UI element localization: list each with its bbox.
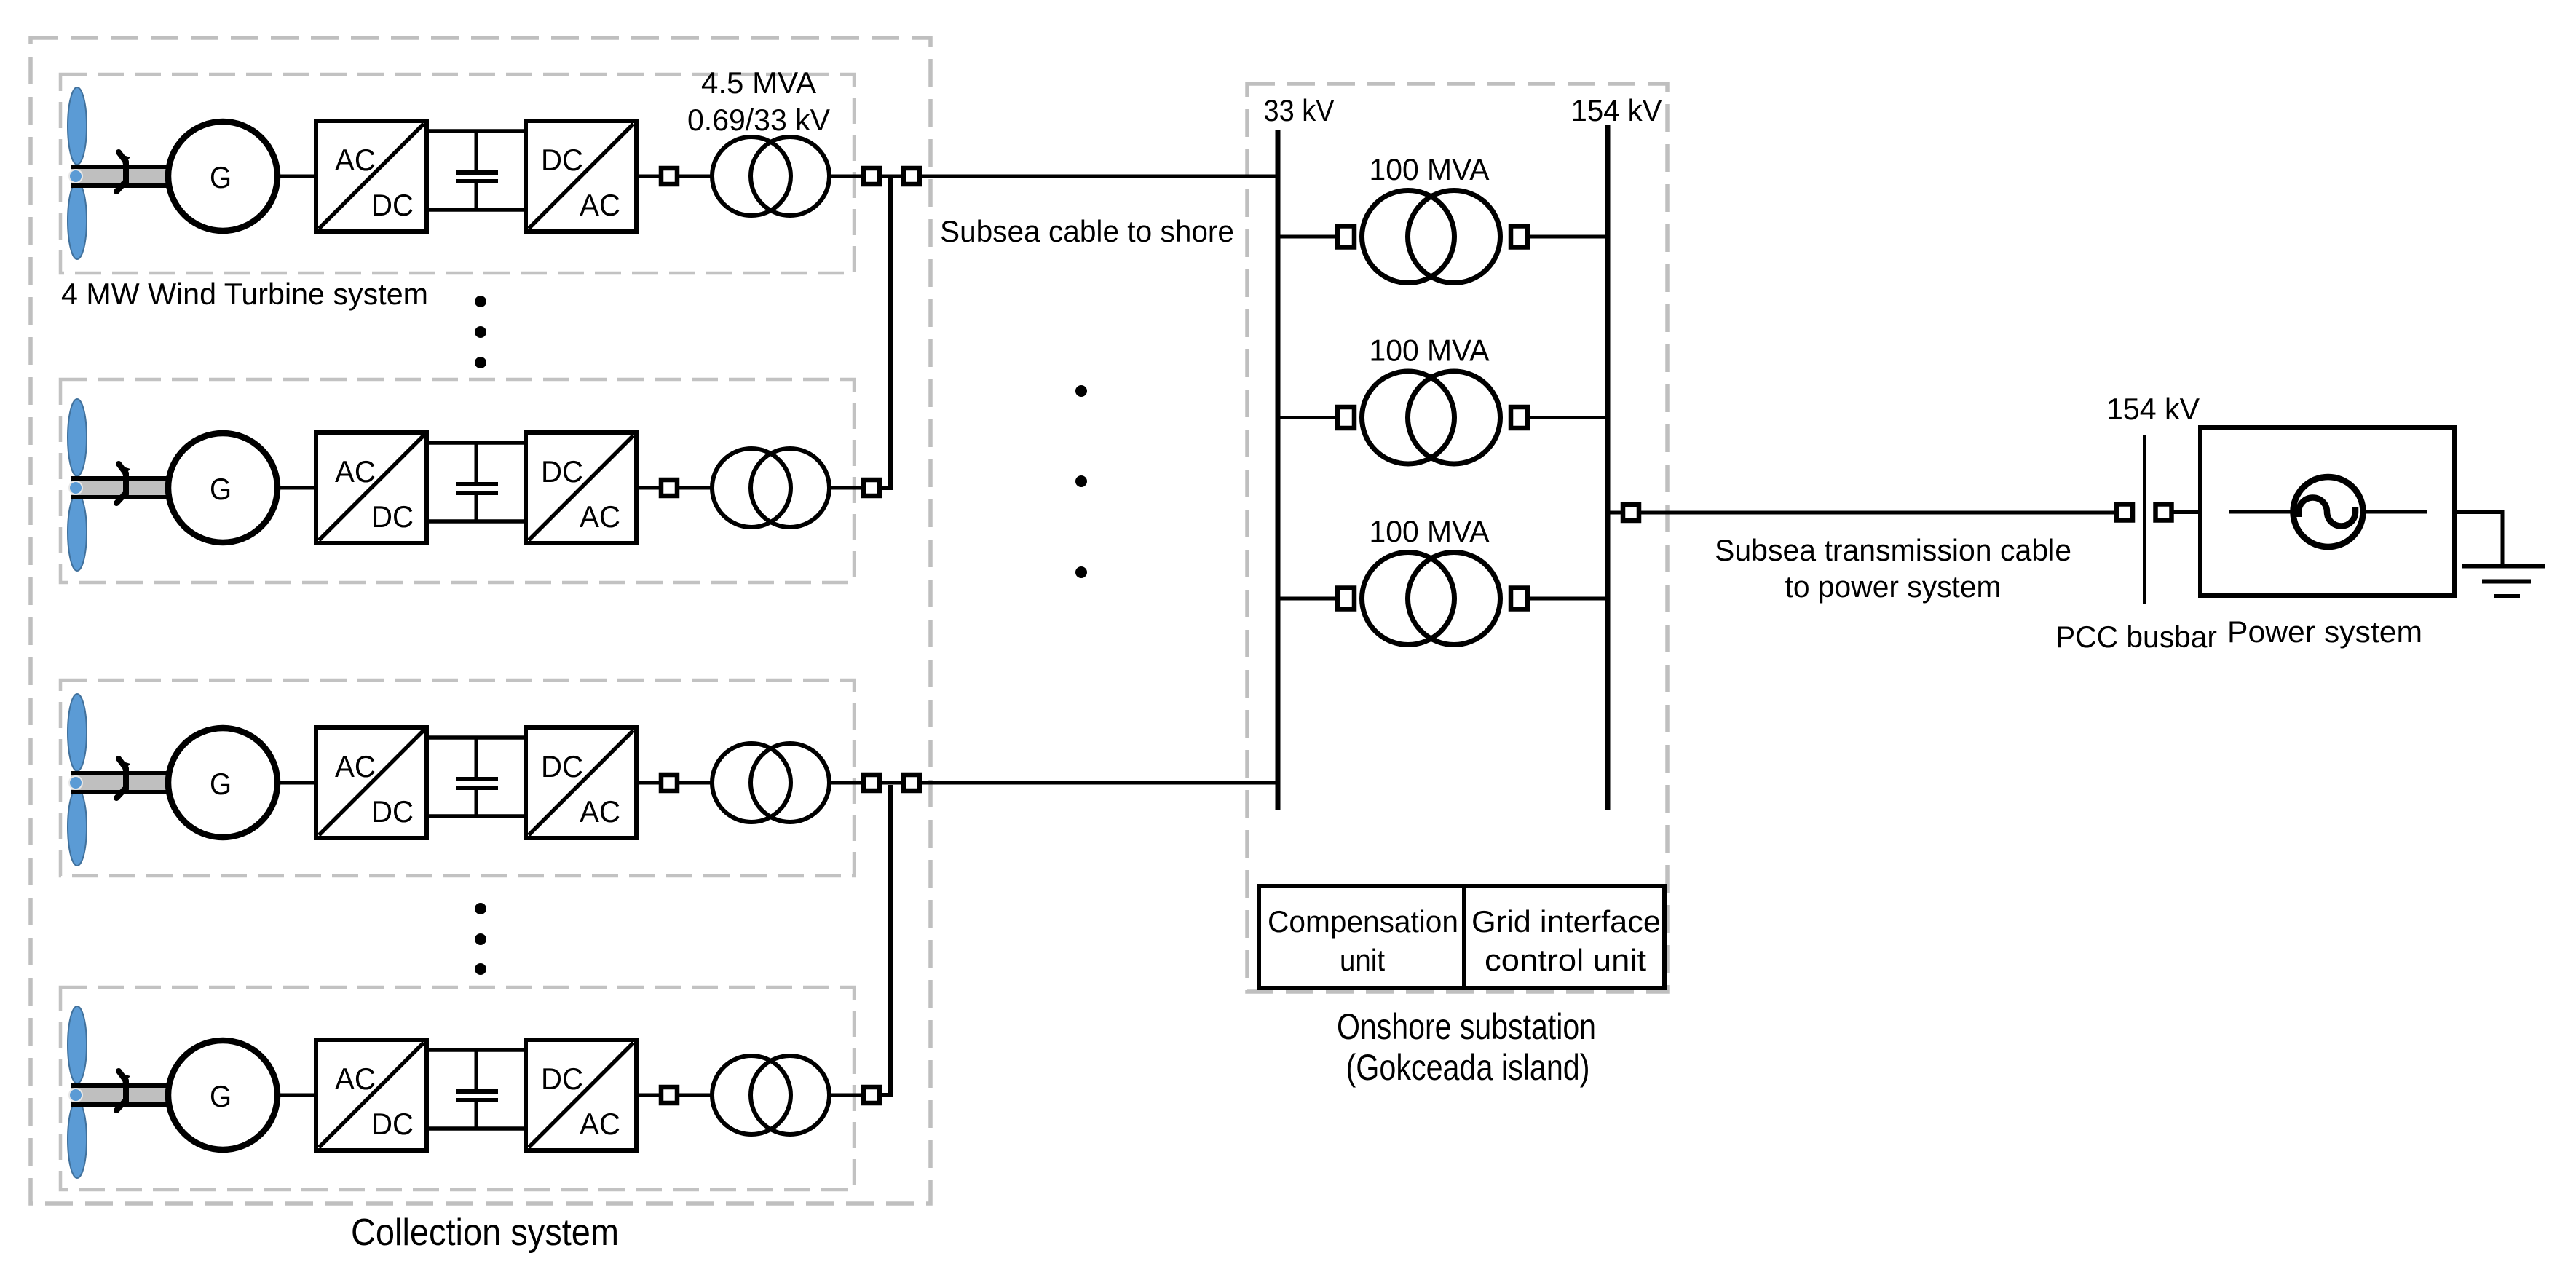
svg-text:100 MVA: 100 MVA (1370, 333, 1490, 368)
collection system outer dashed box (31, 38, 931, 1204)
wire transformer to output breaker WT4 (829, 1094, 864, 1097)
output breaker square (1623, 505, 1639, 521)
DC/AC converter WT4 (526, 1040, 636, 1150)
wire breaker to transformer WT1 (679, 175, 712, 178)
breaker square right TR2 (1511, 407, 1528, 428)
rotor hub WT4 (69, 1089, 82, 1102)
feeder breaker square WT1 (904, 168, 920, 184)
transformer 0.69/33 kV WT2 (712, 449, 829, 527)
breaker square left TR2 (1338, 407, 1354, 428)
ground symbol (2462, 566, 2545, 596)
wire inside power system box (2229, 510, 2427, 514)
svg-text:0.69/33 kV: 0.69/33 kV (687, 103, 830, 137)
wind turbine rotor blades WT3 (68, 694, 87, 866)
svg-text:to power system: to power system (1785, 569, 2002, 604)
wire to feeder breaker WT1 (880, 175, 904, 178)
breaker square left TR3 (1338, 588, 1354, 609)
svg-text:DC: DC (541, 454, 583, 489)
svg-text:AC: AC (335, 143, 376, 177)
wind turbine unit dashed box 2 (60, 379, 854, 582)
DC link capacitor WT2 (456, 443, 498, 521)
svg-text:G: G (210, 472, 232, 506)
DC link rails WT2 (425, 443, 527, 521)
svg-text:AC: AC (580, 794, 620, 829)
wire transformer to output breaker WT1 (829, 175, 864, 178)
DC/AC converter WT1 (526, 121, 636, 232)
DC link capacitor WT1 (456, 131, 498, 210)
wire power system to ground (2454, 513, 2502, 566)
PCC breaker square right (2156, 505, 2172, 521)
breaker square right TR1 (1511, 226, 1528, 248)
transformer 0.69/33 kV WT1 (712, 137, 829, 216)
svg-text:AC: AC (335, 1062, 376, 1096)
wire 33kV bus to transformer TR1 (1278, 235, 1335, 239)
wire generator to AC/DC converter WT3 (277, 781, 316, 785)
svg-text:AC: AC (335, 749, 376, 783)
breaker square WT1 (661, 168, 677, 184)
turbine shaft WT4 (71, 1083, 170, 1107)
svg-text:154 kV: 154 kV (1571, 93, 1662, 127)
154 kV busbar (1605, 125, 1611, 810)
subsea transmission cable wire (1639, 511, 2117, 515)
svg-text:DC: DC (371, 188, 414, 222)
onshore substation dashed box (1247, 84, 1667, 992)
turbine shaft WT1 (71, 165, 170, 188)
svg-text:Grid interface: Grid interface (1471, 904, 1661, 939)
wind turbine unit dashed box 1 (60, 74, 854, 273)
rotation arrow WT3 (116, 759, 130, 798)
svg-text:DC: DC (371, 499, 414, 534)
DC link capacitor WT3 (456, 738, 498, 816)
wire breaker to transformer WT4 (679, 1094, 712, 1097)
wind turbine unit dashed box 3 (60, 680, 854, 876)
svg-text:AC: AC (335, 454, 376, 489)
rotation arrow WT1 (116, 152, 130, 191)
breaker square right TR3 (1511, 588, 1528, 609)
DC/AC converter WT3 (526, 727, 636, 838)
wire generator to AC/DC converter WT2 (277, 486, 316, 490)
100 MVA transformer TR3 (1362, 553, 1501, 645)
generator G WT3 (168, 728, 277, 837)
breaker square WT3 (661, 775, 677, 791)
PCC busbar (2143, 435, 2146, 604)
svg-text:DC: DC (541, 749, 583, 783)
wire DC/AC to breaker WT2 (636, 486, 661, 490)
svg-text:Compensation: Compensation (1268, 904, 1458, 939)
wire DC/AC to breaker WT1 (636, 175, 661, 178)
wire DC/AC to breaker WT3 (636, 781, 661, 785)
generator G WT2 (168, 433, 277, 542)
ellipsis dots between WT1 and WT2 (475, 296, 486, 368)
turbine shaft WT3 (71, 771, 170, 794)
output breaker square WT2 (864, 480, 880, 496)
svg-text:DC: DC (541, 143, 583, 177)
output breaker square WT3 (864, 775, 880, 791)
breaker square WT2 (661, 480, 677, 496)
power system box (2200, 427, 2454, 596)
DC link capacitor WT4 (456, 1050, 498, 1129)
33 kV busbar (1276, 130, 1281, 810)
turbine shaft WT2 (71, 476, 170, 499)
ellipsis dots between WT3 and WT4 (475, 903, 486, 975)
wind turbine rotor blades WT2 (68, 399, 87, 571)
wire feeder junction WT1-WT2 (880, 178, 890, 488)
wire transformer to 154kV bus TR1 (1530, 235, 1608, 239)
wire breaker to transformer WT2 (679, 486, 712, 490)
svg-text:100 MVA: 100 MVA (1370, 152, 1490, 186)
wire generator to AC/DC converter WT1 (277, 175, 316, 178)
transformer 0.69/33 kV WT4 (712, 1056, 829, 1134)
breaker square left TR1 (1338, 226, 1354, 248)
rotor hub WT2 (69, 481, 82, 494)
svg-text:154 kV: 154 kV (2106, 392, 2200, 426)
AC voltage source (2293, 477, 2363, 547)
AC/DC converter WT1 (316, 121, 427, 232)
rotor hub WT3 (69, 776, 82, 789)
svg-text:Subsea cable to shore: Subsea cable to shore (940, 214, 1234, 248)
svg-text:AC: AC (580, 188, 620, 222)
wire 33kV bus to transformer TR3 (1278, 597, 1335, 601)
svg-text:PCC busbar: PCC busbar (2055, 620, 2217, 654)
svg-text:33 kV: 33 kV (1264, 93, 1335, 127)
AC/DC converter WT3 (316, 727, 427, 838)
wire transformer to 154kV bus TR2 (1530, 416, 1608, 419)
svg-text:100 MVA: 100 MVA (1370, 514, 1490, 548)
breaker square WT4 (661, 1087, 677, 1103)
wire transformer to 154kV bus TR3 (1530, 597, 1608, 601)
wire transformer to output breaker WT2 (829, 486, 864, 490)
svg-text:G: G (210, 1079, 232, 1113)
output breaker square WT4 (864, 1087, 880, 1103)
wire PCC to power system box (2173, 510, 2200, 514)
subsea cable feeder 2 wire to 33 kV bus (920, 781, 1278, 785)
wire DC/AC to breaker WT4 (636, 1094, 661, 1097)
svg-text:Subsea transmission cable: Subsea transmission cable (1715, 533, 2071, 567)
100 MVA transformer TR2 (1362, 371, 1501, 464)
svg-text:unit: unit (1340, 943, 1385, 977)
wind turbine rotor blades WT1 (68, 87, 87, 259)
svg-text:4.5 MVA: 4.5 MVA (701, 66, 816, 100)
rotation arrow WT2 (116, 464, 130, 503)
svg-text:Onshore substation: Onshore substation (1337, 1006, 1596, 1047)
rotor hub WT1 (69, 170, 82, 183)
svg-text:AC: AC (580, 499, 620, 534)
generator G WT1 (168, 122, 277, 231)
feeder breaker square WT3 (904, 775, 920, 791)
DC link rails WT3 (425, 738, 527, 816)
svg-text:DC: DC (371, 794, 414, 829)
DC link rails WT1 (425, 131, 527, 210)
rotation arrow WT4 (116, 1071, 130, 1110)
generator G WT4 (168, 1040, 277, 1150)
compensation / grid interface control box (1259, 886, 1664, 988)
PCC breaker square left (2117, 505, 2133, 521)
svg-text:Collection system: Collection system (351, 1212, 619, 1254)
svg-text:G: G (210, 160, 232, 194)
wire to feeder breaker WT3 (880, 781, 904, 785)
wind turbine unit dashed box 4 (60, 987, 854, 1190)
svg-text:4 MW Wind Turbine system: 4 MW Wind Turbine system (61, 277, 428, 311)
ellipsis dots between feeders (1075, 385, 1087, 578)
wire transformer to output breaker WT3 (829, 781, 864, 785)
wire generator to AC/DC converter WT4 (277, 1094, 316, 1097)
subsea cable feeder 1 wire to 33 kV bus (920, 175, 1278, 178)
wind turbine rotor blades WT4 (68, 1006, 87, 1178)
svg-text:control unit: control unit (1485, 943, 1646, 977)
DC link rails WT4 (425, 1050, 527, 1129)
wire feeder junction WT3-WT4 (880, 785, 890, 1095)
wire 154kV bus to output breaker (1608, 511, 1623, 515)
AC/DC converter WT4 (316, 1040, 427, 1150)
svg-text:DC: DC (541, 1062, 583, 1096)
transformer 0.69/33 kV WT3 (712, 743, 829, 822)
svg-text:Power system: Power system (2227, 615, 2422, 649)
svg-text:AC: AC (580, 1107, 620, 1141)
wire 33kV bus to transformer TR2 (1278, 416, 1335, 419)
AC/DC converter WT2 (316, 432, 427, 543)
output breaker square WT1 (864, 168, 880, 184)
svg-text:G: G (210, 767, 232, 801)
wire breaker to transformer WT3 (679, 781, 712, 785)
DC/AC converter WT2 (526, 432, 636, 543)
100 MVA transformer TR1 (1362, 191, 1501, 283)
svg-text:DC: DC (371, 1107, 414, 1141)
svg-text:(Gokceada island): (Gokceada island) (1346, 1047, 1590, 1088)
